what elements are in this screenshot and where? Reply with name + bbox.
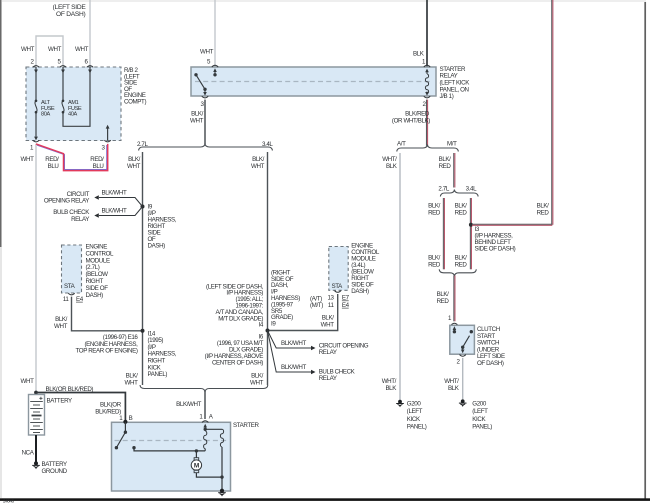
svg-text:2.7L: 2.7L — [137, 141, 148, 148]
svg-text:RED: RED — [437, 298, 450, 305]
svg-text:BLK/: BLK/ — [322, 315, 335, 322]
brace split 2.7L/3.4L right — [440, 190, 478, 197]
fuse AM1 40A — [62, 100, 65, 103]
fuse ALT 80A — [35, 100, 38, 103]
svg-text:COMPT): COMPT) — [124, 99, 146, 106]
svg-text:3.4L: 3.4L — [466, 186, 477, 193]
svg-text:STARTER: STARTER — [233, 422, 260, 429]
svg-text:SIDE OF DASH): SIDE OF DASH) — [475, 246, 516, 253]
svg-text:(M/T): (M/T) — [310, 302, 323, 309]
svg-text:BLK(OR BLK/RED): BLK(OR BLK/RED) — [46, 386, 94, 393]
svg-text:BLK: BLK — [413, 51, 425, 58]
svg-text:BLK(OR: BLK(OR — [100, 402, 122, 409]
svg-text:WHT: WHT — [75, 46, 89, 53]
starter centerline — [115, 440, 228, 442]
svg-text:BLK/WHT: BLK/WHT — [102, 208, 127, 215]
junction I3 dot — [469, 223, 473, 227]
starter coil 1 — [204, 431, 207, 449]
svg-text:WHT: WHT — [48, 46, 62, 53]
svg-text:BLK/: BLK/ — [428, 203, 441, 210]
svg-text:BLK/WHT: BLK/WHT — [281, 364, 306, 371]
relay switch arrow up — [214, 72, 216, 75]
svg-text:KICK: KICK — [472, 416, 486, 423]
battery plus — [39, 397, 42, 399]
svg-text:RELAY: RELAY — [319, 349, 337, 356]
svg-text:CENTER OF DASH): CENTER OF DASH) — [212, 360, 263, 367]
motor brush bottom — [194, 470, 199, 473]
wire BLK feed to relay pin 1 — [426, 0, 428, 67]
starter switch line — [124, 422, 126, 432]
clutch switch drop arrow — [462, 347, 464, 349]
wire WHT/BLK clutch to ground — [462, 358, 464, 401]
svg-text:STA: STA — [332, 283, 344, 290]
svg-text:11: 11 — [63, 296, 70, 303]
wire WHT/BLK A/T branch — [399, 153, 401, 400]
wire BLK/WHT ECM3.4 to I6 — [270, 294, 338, 331]
wire motor to ground — [196, 473, 222, 477]
svg-text:PANEL): PANEL) — [472, 424, 492, 431]
wire coil link — [205, 428, 222, 430]
svg-text:(LEFT: (LEFT — [407, 408, 423, 415]
svg-text:DASH): DASH) — [148, 243, 166, 250]
wire arrow circuit opening relay left — [99, 198, 143, 207]
wire arrow circuit opening relay right — [268, 331, 312, 349]
svg-text:WHT: WHT — [21, 46, 35, 53]
wire BLK/RED relay pin2 down dark — [425, 100, 427, 146]
wire WHT battery feed — [35, 144, 37, 393]
svg-text:BLK/: BLK/ — [251, 373, 264, 380]
svg-text:BLK/RED: BLK/RED — [405, 111, 430, 118]
brace split 2.7L/3.4L left — [139, 144, 273, 151]
svg-text:B: B — [129, 415, 133, 422]
svg-text:OF DASH): OF DASH) — [56, 11, 86, 18]
arrow into box pin 5 — [61, 70, 65, 74]
wire BLK/RED to clutch switch — [453, 276, 455, 322]
relay switch pivot contact — [194, 73, 197, 76]
svg-text:BLK/: BLK/ — [252, 156, 265, 163]
svg-text:BLK/: BLK/ — [128, 156, 141, 163]
ground G200 right — [461, 399, 465, 403]
svg-text:WHT/: WHT/ — [444, 378, 459, 385]
starter box — [112, 422, 231, 491]
svg-text:BLK/RED): BLK/RED) — [95, 409, 121, 416]
svg-text:G200: G200 — [407, 401, 422, 408]
svg-text:BLK/WHT: BLK/WHT — [176, 401, 201, 408]
pin A connector — [202, 421, 208, 423]
starter switch arm — [116, 432, 125, 448]
wire BLK/WHT relay pin3 down — [204, 100, 206, 144]
svg-text:WHT: WHT — [54, 323, 68, 330]
svg-text:24846: 24846 — [3, 499, 14, 503]
ECM 2.7L box — [62, 245, 82, 293]
wire WHT feed to pin 6 — [89, 0, 91, 67]
brace merge right — [439, 269, 476, 276]
junction battery dot — [34, 391, 38, 395]
svg-text:TOP REAR OF ENGINE): TOP REAR OF ENGINE) — [76, 348, 138, 355]
starter pin A arrow up — [204, 427, 206, 429]
svg-text:E4: E4 — [76, 296, 84, 303]
wire motor feed — [134, 448, 205, 451]
svg-text:DASH): DASH) — [351, 288, 369, 295]
svg-text:RED/: RED/ — [90, 156, 104, 163]
svg-text:KICK: KICK — [407, 416, 421, 423]
wire battery to ground — [35, 435, 37, 463]
wire BLK/WHT ECM2.7 to I14 — [72, 297, 141, 331]
svg-text:(LEFT: (LEFT — [472, 408, 488, 415]
starter coil junction dot — [204, 428, 207, 431]
svg-text:WHT/: WHT/ — [382, 156, 397, 163]
arrow into box pin 6 — [88, 70, 92, 74]
svg-text:RED: RED — [428, 262, 441, 269]
relay switch arm contact — [203, 88, 206, 91]
starter ground dot — [220, 489, 224, 493]
svg-text:WHT: WHT — [190, 118, 204, 125]
arrow pin 3 up — [106, 125, 110, 129]
svg-text:RED: RED — [428, 210, 441, 217]
svg-text:DASH): DASH) — [86, 292, 104, 299]
svg-text:PANEL): PANEL) — [148, 371, 168, 378]
svg-text:BATTERY: BATTERY — [42, 461, 68, 468]
svg-text:RED: RED — [455, 210, 468, 217]
connector pin 3 — [104, 140, 110, 142]
connector pin 5 — [60, 66, 66, 68]
connector clutch pin 1 — [451, 323, 457, 325]
clutch switch contact top left — [453, 330, 456, 333]
svg-text:E7: E7 — [342, 295, 350, 302]
svg-text:BLK: BLK — [386, 163, 398, 170]
wire BLK/RED 3.4 branch — [469, 198, 471, 269]
svg-text:13: 13 — [327, 295, 334, 302]
svg-text:BLK/WHT: BLK/WHT — [102, 190, 127, 197]
clutch start switch box — [450, 325, 475, 354]
svg-text:WHT: WHT — [250, 380, 264, 387]
svg-text:WHT: WHT — [21, 156, 35, 163]
relay switch fixed contact — [213, 73, 216, 76]
ECM 3.4L box — [329, 247, 348, 291]
junction I9 dot — [141, 205, 145, 209]
svg-text:2.7L: 2.7L — [438, 186, 449, 193]
battery ground dot — [34, 461, 38, 465]
svg-text:BLK/: BLK/ — [537, 203, 550, 210]
svg-text:M/T DLX GRADE): M/T DLX GRADE) — [218, 315, 263, 322]
svg-text:(OR WHT/BLK): (OR WHT/BLK) — [392, 118, 430, 125]
border right — [644, 2, 646, 499]
svg-text:STA: STA — [64, 283, 76, 290]
svg-text:OPENING RELAY: OPENING RELAY — [44, 197, 89, 204]
wire pin 3 stub — [107, 128, 109, 141]
relay coil arrow up — [425, 69, 429, 73]
motor brush top — [194, 458, 199, 461]
pin B edge dot — [123, 420, 127, 424]
border left faint segment — [0, 247, 2, 498]
connector relay pin 5 — [212, 65, 218, 67]
svg-text:RELAY: RELAY — [71, 216, 89, 223]
svg-text:80A: 80A — [41, 111, 50, 117]
svg-text:GROUND: GROUND — [42, 468, 68, 475]
starter motor contact — [132, 446, 135, 449]
starter switch contact — [124, 431, 127, 434]
connector relay pin 3 — [202, 96, 208, 98]
wire BLK/RED trunk right side — [551, 0, 553, 225]
wire RED/BLU jumper — [36, 144, 108, 171]
brace split A/T / M/T — [397, 145, 459, 152]
brace merge center bottom — [140, 385, 268, 392]
ground G200 left — [398, 400, 402, 404]
starter relay box — [191, 67, 436, 96]
wire RED/BLU jumper blue core — [37, 145, 107, 170]
svg-text:RED: RED — [439, 163, 452, 170]
wire BLK/WHT right branch — [267, 152, 269, 385]
svg-text:BLK/: BLK/ — [126, 373, 139, 380]
clutch switch arm contact — [461, 346, 464, 349]
relay switch arm — [196, 75, 205, 90]
starter switch arm end — [115, 446, 118, 449]
wire arrow bulb check relay right — [268, 331, 312, 373]
connector relay pin 2 — [424, 96, 430, 98]
svg-text:WHT: WHT — [321, 322, 335, 329]
connector pin 1 — [33, 140, 39, 142]
svg-text:WHT: WHT — [251, 163, 265, 170]
svg-text:(LEFT SIDE: (LEFT SIDE — [53, 4, 87, 11]
svg-text:BLK: BLK — [448, 385, 460, 392]
relay pin 3 drop — [204, 89, 206, 92]
svg-text:BLK: BLK — [385, 385, 397, 392]
battery ground symbol — [32, 464, 40, 466]
junction I14 dot — [141, 329, 145, 333]
battery box — [29, 395, 45, 436]
connector ECM 2.7 — [68, 293, 74, 295]
arrow pin 1 exit — [34, 137, 38, 141]
svg-text:40A: 40A — [68, 111, 77, 117]
arrow into box pin 2 — [34, 70, 38, 74]
svg-text:RELAY: RELAY — [319, 375, 337, 382]
junction motor dot — [195, 449, 198, 452]
wire BLK/RED relay pin2 down red — [427, 100, 429, 146]
svg-text:WHT: WHT — [200, 49, 214, 56]
wire BLK/RED link I3 to trunk — [472, 223, 552, 225]
svg-text:NCA: NCA — [22, 450, 35, 457]
battery cells — [30, 402, 43, 433]
wire WHT feed to relay pin 5 — [214, 0, 216, 67]
wire motor drop — [195, 451, 197, 458]
relay coil arrow down — [426, 92, 428, 93]
svg-text:M/T: M/T — [447, 140, 457, 147]
svg-text:BLK/: BLK/ — [55, 316, 68, 323]
clutch switch arrow up — [453, 330, 455, 332]
wire coil2 to ground — [221, 447, 223, 491]
svg-text:RED: RED — [537, 210, 550, 217]
svg-text:WHT: WHT — [127, 163, 141, 170]
clutch switch contact top right — [470, 330, 473, 333]
connector pin 6 — [87, 66, 93, 68]
wire WHT link pins 2-5 — [36, 36, 63, 67]
connector relay pin 1 — [424, 65, 430, 67]
svg-text:RED: RED — [455, 262, 468, 269]
svg-text:OF DASH): OF DASH) — [477, 360, 504, 367]
fuse box R/B 2 — [26, 67, 121, 141]
connector clutch pin 2 — [460, 355, 466, 357]
svg-text:BLK/WHT: BLK/WHT — [281, 340, 306, 347]
motor circle M — [191, 460, 201, 470]
svg-text:BLK/: BLK/ — [455, 203, 468, 210]
border top faint line — [2, 0, 646, 2]
border bottom bar — [0, 498, 650, 501]
wire BLK/WHT left branch — [142, 152, 144, 385]
svg-text:BLK/: BLK/ — [437, 291, 450, 298]
wire BLK/RED 2.7 branch — [442, 198, 444, 269]
svg-text:G200: G200 — [472, 401, 487, 408]
wire AM1 fuse branch — [62, 67, 64, 100]
starter coil 2 — [220, 429, 223, 447]
starter ground symbol — [218, 492, 226, 494]
svg-text:M: M — [194, 463, 199, 470]
wire BLK/WHT to starter pin A — [204, 391, 206, 419]
svg-text:BLK/: BLK/ — [191, 111, 204, 118]
relay centerline — [195, 81, 432, 83]
svg-text:WHT: WHT — [125, 380, 139, 387]
svg-text:WHT: WHT — [21, 378, 35, 385]
clutch switch arm — [463, 336, 470, 348]
svg-text:3.4L: 3.4L — [262, 141, 273, 148]
connector pin 2 — [33, 66, 39, 68]
wire ALT fuse branch — [35, 67, 37, 100]
svg-text:WHT/: WHT/ — [382, 378, 397, 385]
svg-text:J/B 1): J/B 1) — [440, 93, 454, 100]
svg-text:E4: E4 — [342, 302, 350, 309]
connector ECM 3.4 — [335, 291, 341, 293]
svg-text:11: 11 — [328, 302, 335, 309]
svg-text:RED/: RED/ — [45, 156, 59, 163]
svg-text:BLU: BLU — [93, 163, 104, 170]
svg-text:BLU: BLU — [48, 163, 59, 170]
svg-text:A/T: A/T — [397, 140, 406, 147]
border left dark segment — [0, 0, 2, 247]
relay coil — [425, 74, 428, 94]
svg-text:BATTERY: BATTERY — [47, 397, 73, 404]
junction I4/I6 dot — [266, 329, 270, 333]
svg-text:BLK/: BLK/ — [439, 156, 452, 163]
junction ground dot inner — [220, 475, 223, 478]
wire arrow bulb check relay left — [99, 207, 143, 216]
wire BLK/RED M/T branch — [453, 153, 455, 188]
svg-text:PANEL): PANEL) — [407, 424, 427, 431]
wire BLK(OR BLK/RED) horizontal — [36, 393, 125, 422]
